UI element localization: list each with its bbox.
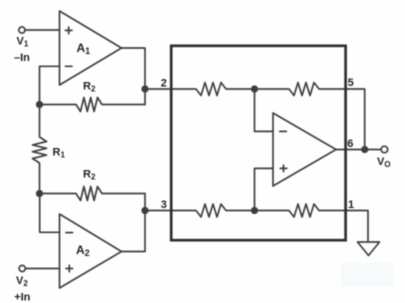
svg-text:6: 6 — [347, 138, 353, 150]
svg-text:R2: R2 — [83, 81, 96, 94]
node junction output — [362, 147, 368, 153]
terminal V2 — [19, 265, 25, 271]
op-amp A2 — [60, 214, 122, 288]
svg-text:1: 1 — [348, 199, 354, 211]
U1 minus sign — [280, 130, 287, 132]
wire A1 inverting input to left node — [40, 66, 60, 104]
A2 plus sign — [66, 265, 73, 272]
pin 2 rail with internal resistors — [145, 83, 348, 96]
A2 minus sign — [66, 232, 73, 234]
A1 minus sign — [65, 65, 72, 67]
terminal Vo — [381, 146, 388, 153]
svg-text:R1: R1 — [53, 147, 66, 160]
resistor R2 (top feedback) — [40, 98, 146, 112]
node junction A1 output — [142, 86, 148, 92]
wire A2 output up — [122, 194, 146, 252]
svg-text:2: 2 — [161, 77, 167, 89]
wire A1 output down — [122, 48, 146, 105]
svg-text:V1: V1 — [17, 35, 29, 48]
op-amp A1 — [60, 11, 122, 85]
wire pin 5 to output — [346, 89, 365, 150]
wire top rail to U1 inverting input — [255, 89, 274, 131]
node junction bottom rail center — [252, 208, 258, 214]
node junction left top — [37, 102, 43, 108]
wire U1 output to Vo — [336, 149, 381, 151]
resistor R1 (vertical) — [33, 105, 47, 192]
svg-text:+In: +In — [14, 292, 30, 303]
svg-text:A2: A2 — [76, 243, 90, 258]
svg-text:–In: –In — [14, 52, 30, 64]
svg-text:5: 5 — [348, 77, 354, 89]
faint background smudge bottom-right — [341, 263, 394, 287]
A1 plus sign — [65, 27, 72, 34]
svg-text:A1: A1 — [77, 41, 91, 56]
pin 3 rail with internal resistors — [145, 204, 348, 217]
svg-text:V2: V2 — [16, 275, 28, 288]
wire bottom rail to U1 non-inverting input — [255, 168, 274, 210]
svg-text:R2: R2 — [83, 169, 96, 182]
ground — [358, 242, 380, 256]
svg-text:3: 3 — [161, 199, 167, 211]
resistor R2 (bottom feedback) — [40, 187, 146, 201]
wire V2 to A2 + input — [25, 268, 59, 270]
terminal V1 — [19, 27, 25, 33]
U1 plus sign — [280, 165, 287, 172]
op-amp U1 (internal) — [273, 113, 336, 186]
node junction left bottom — [37, 191, 43, 197]
wire pin 1 to ground — [346, 211, 369, 243]
wire node to A2 inverting input — [40, 194, 60, 233]
IC box — [171, 46, 345, 240]
wire V1 to A1 + input — [25, 29, 59, 31]
svg-text:VO: VO — [377, 156, 391, 169]
node junction top rail center — [252, 86, 258, 92]
node junction A2 output — [142, 208, 148, 214]
